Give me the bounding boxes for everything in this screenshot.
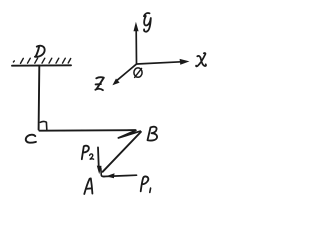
y-axis arrowhead [134,22,139,32]
label x chi [196,53,206,66]
P2 arrow shaft [97,147,100,168]
member BA diagonal [103,132,141,172]
label P of P2 [82,146,89,159]
z-axis arrowhead [112,79,119,86]
label z [95,77,103,90]
x-axis shaft [137,62,181,64]
theta circle symbol [134,68,142,77]
y-axis shaft [135,31,137,64]
label c [26,135,36,143]
right-angle mark at C [40,121,47,129]
z-axis shaft [117,64,136,80]
label A [84,178,92,194]
member DC vertical [38,67,41,130]
corner mark at A [101,168,105,177]
P1 arrowhead [106,173,115,178]
label D [35,46,45,57]
subscript 2 [90,154,94,159]
label B [148,127,158,141]
zigzag bend at B [118,130,140,138]
x-axis arrowhead [180,59,190,65]
P1 shaft at A [104,175,137,176]
wall hatching [13,58,70,63]
label P1 rho [141,176,149,191]
member CB horizontal [40,129,136,132]
P2 arrowhead [97,166,102,175]
wall ceiling line at D [12,64,71,66]
label y [144,13,151,32]
subscript 1 [149,188,152,192]
